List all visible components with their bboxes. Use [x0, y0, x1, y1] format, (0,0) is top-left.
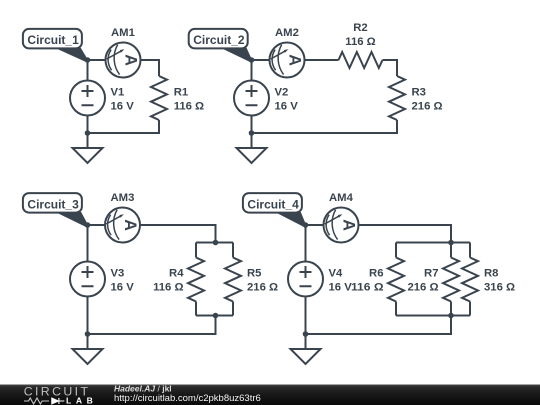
svg-text:R7: R7 — [424, 268, 438, 280]
svg-text:Circuit_2: Circuit_2 — [193, 33, 245, 47]
svg-text:116 Ω: 116 Ω — [351, 282, 384, 294]
svg-text:16 V: 16 V — [329, 282, 353, 294]
svg-text:216 Ω: 216 Ω — [412, 101, 443, 113]
svg-text:http://circuitlab.com/c2pkb8uz: http://circuitlab.com/c2pkb8uz63tr6 — [114, 393, 261, 404]
svg-text:V4: V4 — [329, 268, 344, 280]
svg-text:R8: R8 — [484, 268, 498, 280]
svg-text:AM2: AM2 — [275, 27, 299, 39]
svg-text:V1: V1 — [111, 87, 125, 99]
svg-text:A: A — [122, 54, 140, 66]
svg-text:116 Ω: 116 Ω — [345, 36, 375, 48]
svg-text:AM3: AM3 — [111, 192, 135, 204]
svg-text:AM4: AM4 — [329, 192, 354, 204]
svg-text:216 Ω: 216 Ω — [247, 282, 278, 294]
svg-text:R1: R1 — [174, 87, 188, 99]
svg-text:AM1: AM1 — [111, 27, 135, 39]
svg-text:Circuit_4: Circuit_4 — [247, 198, 299, 212]
svg-text:116 Ω: 116 Ω — [174, 101, 204, 113]
svg-text:V2: V2 — [275, 87, 289, 99]
svg-text:R4: R4 — [169, 268, 184, 280]
svg-text:A: A — [121, 219, 139, 231]
svg-text:116 Ω: 116 Ω — [153, 282, 183, 294]
svg-text:Circuit_3: Circuit_3 — [27, 198, 79, 212]
svg-text:R3: R3 — [412, 87, 426, 99]
svg-text:R5: R5 — [247, 268, 261, 280]
svg-text:V3: V3 — [111, 268, 125, 280]
svg-text:16 V: 16 V — [275, 101, 299, 113]
svg-text:316 Ω: 316 Ω — [484, 282, 515, 294]
svg-text:Circuit_1: Circuit_1 — [27, 33, 79, 47]
svg-text:16 V: 16 V — [111, 101, 135, 113]
svg-text:16 V: 16 V — [111, 282, 135, 294]
svg-text:R6: R6 — [369, 268, 383, 280]
svg-text:R2: R2 — [353, 22, 367, 34]
svg-text:LAB: LAB — [66, 395, 97, 405]
svg-text:216 Ω: 216 Ω — [407, 282, 438, 294]
svg-text:A: A — [286, 54, 304, 66]
svg-text:A: A — [340, 219, 358, 231]
